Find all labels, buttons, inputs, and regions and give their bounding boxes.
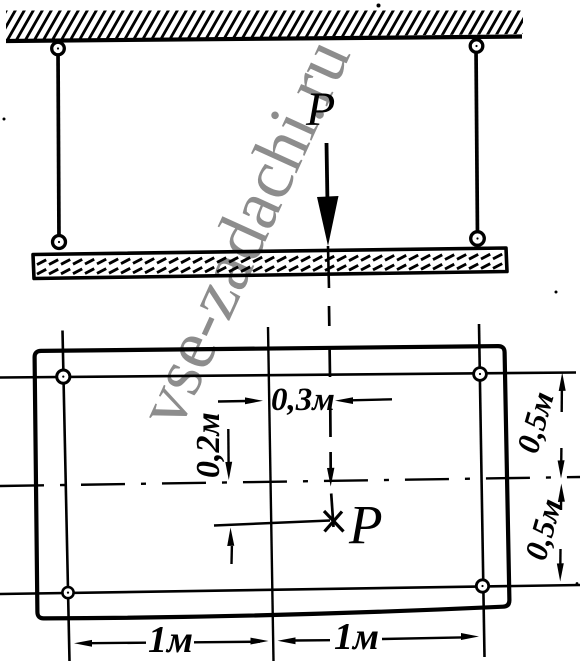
- force line through plate: [328, 246, 329, 288]
- ring bottom-left: [53, 236, 66, 249]
- centre axis vertical: [268, 327, 274, 661]
- dimension 0,2m upper arrow: [225, 429, 232, 480]
- svg-text:P: P: [348, 494, 383, 555]
- rope right: [476, 46, 478, 238]
- hole bottom-right: [476, 580, 488, 592]
- scan speck top: [377, 4, 381, 8]
- svg-text:1м: 1м: [334, 616, 379, 658]
- ceiling hatched support: [0, 4, 550, 46]
- action line arrowhead: [327, 468, 334, 487]
- hole axis vertical right: [479, 324, 485, 657]
- centre axis horizontal (dash-dot): [0, 477, 580, 486]
- dimension 0,2m lower arrow: [227, 528, 234, 565]
- scan speck left: [3, 118, 6, 121]
- svg-text:1м: 1м: [148, 619, 193, 661]
- dimension 0,3m right arrow: [335, 397, 392, 404]
- ring centre dots: [57, 45, 484, 594]
- rope left: [58, 49, 59, 242]
- hole axis vertical left: [63, 331, 70, 661]
- svg-text:0,3м: 0,3м: [271, 382, 335, 418]
- ring bottom-right: [471, 232, 485, 246]
- dimension 1m right: [278, 633, 480, 644]
- force P arrow: [317, 143, 339, 246]
- hole bottom-left: [62, 587, 73, 598]
- ring top-left: [52, 42, 65, 55]
- dimension 0,5m bottom arrows: [557, 484, 565, 582]
- scan speck bottom-right: [576, 582, 579, 585]
- action line tail to P point: [331, 494, 333, 528]
- hole top-left: [57, 370, 70, 383]
- plate side view (hatched bar): [33, 248, 507, 279]
- dimension 0,5m top arrows: [558, 373, 566, 479]
- dimension 0,3m left arrow: [218, 397, 263, 404]
- dashed action line: [329, 306, 331, 471]
- leader line to point P: [214, 521, 330, 526]
- plan view outer rectangle: [35, 346, 510, 618]
- point P cross: [324, 511, 344, 532]
- hole top-right: [474, 368, 487, 381]
- hole axis horizontal top: [0, 373, 576, 378]
- hole axis horizontal bottom: [0, 585, 580, 594]
- ring top-right: [470, 40, 483, 53]
- scan speck right: [555, 291, 558, 294]
- dimension 1m left: [74, 638, 269, 647]
